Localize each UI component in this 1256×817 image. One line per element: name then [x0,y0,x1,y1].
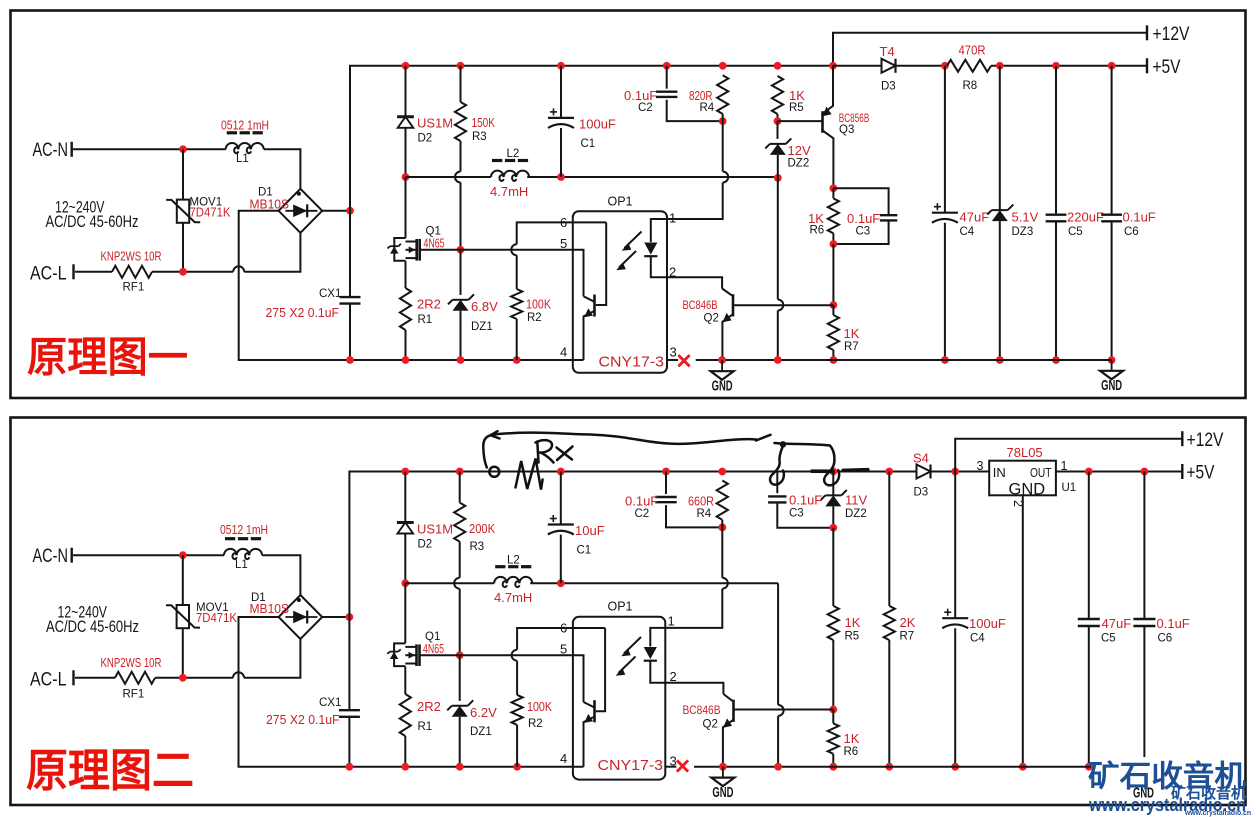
capacitor C3 0.1uF [833,188,888,214]
resistor R3 [460,66,462,102]
wire bottom rail left [350,359,584,361]
junction bottom R2 [513,356,521,364]
junction Q2 emitter/GND (2) [719,763,727,771]
wire pin6 to R2 top [517,222,607,244]
transistor Q1 4N65 (2) [405,646,416,648]
svg-text:1: 1 [668,614,675,629]
svg-text:R1: R1 [418,721,433,733]
capacitor C3 0.1uF (2) [776,472,778,494]
wire Q1 source to node [420,249,461,251]
capacitor C5 47uF (2) [1088,472,1090,620]
svg-text:0.1uF: 0.1uF [1123,210,1156,225]
optocoupler OP1 body (2) [573,617,665,780]
svg-text:78L05: 78L05 [1007,445,1043,460]
svg-text:AC-L: AC-L [30,263,67,285]
svg-text:GND: GND [712,785,733,801]
svg-text:D2: D2 [418,133,433,145]
svg-text:RF1: RF1 [123,689,145,701]
capacitor C6 0.1uF (2) [1143,472,1145,620]
terminal +12V (2) [1181,431,1183,446]
junction top rail C2 (2) [662,468,670,476]
svg-text:R6: R6 [844,746,859,758]
no-connect X mark [678,355,689,366]
transistor Q1 4N65 [406,241,417,243]
wire R4 to OP1 pin1 [722,121,724,171]
junction top rail R3 [457,62,465,70]
svg-text:7D471K: 7D471K [196,610,237,625]
svg-text:C6: C6 [1158,633,1173,645]
svg-text:R2: R2 [527,312,542,324]
svg-text:CX1: CX1 [319,697,341,709]
svg-text:4N65: 4N65 [424,236,445,251]
junction top rail Q3/T4 [829,62,837,70]
svg-text:R8: R8 [963,80,978,92]
svg-text:R4: R4 [697,508,712,520]
svg-text:OUT: OUT [1030,465,1052,480]
svg-text:www.crystalradio.cn: www.crystalradio.cn [1184,810,1251,817]
inductor L2 [491,171,529,181]
wire U1 GND pin (2) [1022,495,1024,766]
svg-text:0.1uF: 0.1uF [847,211,880,226]
svg-text:6.8V: 6.8V [471,299,498,314]
wire S4 to IN (2) [931,471,990,473]
zener DZ3 5.1V [999,66,1001,210]
wire bridge- down [239,211,350,360]
wire bridge- down (2) [239,617,350,767]
junction source node [457,246,465,254]
svg-text:BC856B: BC856B [839,111,870,125]
svg-text:L2: L2 [507,148,520,160]
svg-text:C6: C6 [1124,226,1139,238]
junction DZ3 bottom [996,356,1004,364]
resistor R1 2R2 [405,261,407,288]
svg-text:4: 4 [560,345,567,360]
capacitor CX1 [340,296,361,298]
capacitor C2 0.1uF [666,66,668,89]
svg-text:1K: 1K [844,326,860,341]
svg-text:100uF: 100uF [579,117,616,132]
wire AC-L to RF1 [75,271,112,273]
junction top rail C1 [557,62,565,70]
svg-text:KNP2WS 10R: KNP2WS 10R [101,655,162,670]
transistor Q3 BC856B [778,120,823,122]
junction Q2 emitter/GND [718,356,726,364]
svg-text:1K: 1K [789,88,805,103]
svg-text:CX1: CX1 [319,288,341,300]
svg-text:C2: C2 [635,508,650,520]
OP1 light arrows [619,232,642,268]
svg-text:2K: 2K [900,615,916,630]
svg-text:1K: 1K [844,731,860,746]
OP1 phototransistor [593,295,596,317]
svg-text:AC-N: AC-N [33,139,69,161]
wire bottom rail right [696,359,1112,361]
svg-text:C4: C4 [960,226,975,238]
svg-text:220uF: 220uF [1067,210,1104,225]
svg-text:2R2: 2R2 [417,699,441,714]
junction C4 bottom (2) [951,763,959,771]
resistor R2 100K [511,244,517,255]
svg-text:2R2: 2R2 [417,297,441,312]
wire L1 to bridge top (2) [262,555,300,595]
svg-text:C3: C3 [789,508,804,520]
junction bottom R1 (2) [401,763,409,771]
optocoupler OP1 body [573,211,667,373]
wire OUT to +5V (2) [1056,471,1182,473]
svg-text:6: 6 [560,215,567,230]
svg-text:820R: 820R [689,88,713,103]
svg-text:L2: L2 [507,555,520,567]
junction R6/C3 bottom [830,240,838,248]
wire R4 to OP1 pin1 (2) [721,527,723,577]
OP1 internal LED (2) [650,628,665,647]
wire Q1 source to node (2) [420,654,460,656]
svg-text:DZ1: DZ1 [471,321,493,333]
junction bottom CX1 [346,356,354,364]
svg-text:100K: 100K [526,297,551,312]
svg-text:6: 6 [560,621,567,636]
svg-text:C5: C5 [1068,226,1083,238]
svg-text:AC/DC 45-60Hz: AC/DC 45-60Hz [46,212,139,231]
OP1 light arrows (2) [619,637,642,673]
svg-text:KNP2WS 10R: KNP2WS 10R [101,249,162,264]
junction C4 bottom [941,356,949,364]
capacitor CX1 (2) [339,709,360,711]
svg-text:C4: C4 [970,633,985,645]
wire R6 to Q2 base node [832,244,834,305]
wire pin5 line [461,250,584,296]
svg-text:12V: 12V [788,143,811,158]
svg-text:275 X2 0.1uF: 275 X2 0.1uF [266,712,340,727]
wire left vertical loop (2) [348,717,350,767]
svg-text:原理图二: 原理图二 [26,745,194,796]
svg-text:+12V: +12V [1153,23,1190,45]
diode D2 US1M (2) [404,472,406,523]
svg-text:100K: 100K [527,699,552,714]
svg-text:200K: 200K [469,521,495,536]
svg-text:+12V: +12V [1187,429,1224,451]
resistor R4 820R [717,75,728,114]
resistor R5 1K [772,76,783,114]
svg-text:7D471K: 7D471K [190,205,231,220]
capacitor C5 220uF [1055,66,1057,215]
svg-text:U1: U1 [1062,482,1077,494]
wire AC-L to RF1 (2) [75,677,115,679]
capacitor C2 0.1uF (2) [665,472,667,495]
diode S4/D3 (2) [917,465,931,479]
diode T4/D3 [882,59,896,73]
regulator U1 78L05 [989,461,1056,496]
wire bridge+ to main [322,210,350,212]
resistor R1 2R2 (2) [404,666,406,694]
junction AC-L/MOV1 (2) [179,674,187,682]
junction Q3 collector/R6 [830,184,838,192]
svg-text:AC-N: AC-N [33,545,69,567]
wire DZ2 to ground rail [777,178,779,300]
svg-text:L1: L1 [236,153,249,165]
wire R3 hop over mid rail (2) [454,578,459,589]
junction R4 bottom (2) [718,524,726,532]
wire source node to DZ1 [460,250,462,295]
junction R6 bottom (2) [829,763,837,771]
junction bridge+ node (2) [346,613,354,621]
junction bridge+ node [346,207,354,215]
svg-text:D3: D3 [914,487,929,499]
transistor Q2 BC846B [667,277,722,288]
svg-text:US1M: US1M [417,116,453,131]
ground GND (primary) [721,360,723,371]
svg-text:3: 3 [670,345,677,360]
svg-text:US1M: US1M [417,522,453,537]
svg-text:R7: R7 [844,341,859,353]
zener DZ1 6.2V (2) [452,706,468,717]
resistor R6 1K (2) [832,710,834,724]
wire mid rail right [527,176,774,178]
wire +12V riser [833,33,1147,66]
wire left vertical (+12V loop) [349,304,351,360]
wire R3 hop over mid rail [455,172,461,183]
wire AC-N to L1 (2) [73,554,224,556]
svg-text:C1: C1 [577,545,592,557]
panel 2 border frame [11,418,1246,806]
junction DZ2 bottom (2) [829,524,837,532]
svg-text:GND: GND [1101,378,1122,394]
inductor L1 (2) [224,549,262,559]
svg-text:R7: R7 [900,631,915,643]
svg-text:S4: S4 [913,451,929,466]
no-connect X mark (2) [677,760,688,771]
ground GND (right) [1111,360,1113,371]
svg-text:C1: C1 [581,138,596,150]
panel 1 border frame [11,11,1246,399]
wire D3 to R8 [896,65,948,67]
svg-text:150K: 150K [472,115,496,130]
junction C5 bottom [1052,356,1060,364]
svg-text:MB10S: MB10S [250,197,290,212]
wire L1 to bridge top [264,149,301,189]
svg-text:4.7mH: 4.7mH [490,184,528,199]
junction bottom DZ1 [457,356,465,364]
svg-text:11V: 11V [845,493,867,508]
junction top rail R7 (2) [885,468,893,476]
junction top rail D2 (2) [401,468,409,476]
svg-text:4.7mH: 4.7mH [494,590,532,605]
svg-text:R3: R3 [470,541,485,553]
wire pin5 line (2) [460,655,584,702]
svg-text:Q3: Q3 [839,124,854,136]
resistor R3 200K (2) [459,472,461,503]
bridge rectifier D1 [279,189,323,233]
svg-text:R4: R4 [700,102,715,114]
terminal +5V (2) [1181,464,1183,479]
junction C5 top (2) [1085,468,1093,476]
junction C5 top [1052,62,1060,70]
svg-text:0.1uF: 0.1uF [1157,616,1190,631]
junction top rail R4 [719,62,727,70]
svg-text:100uF: 100uF [969,616,1006,631]
svg-text:IN: IN [993,465,1006,480]
svg-text:6.2V: 6.2V [470,705,497,720]
svg-text:Q2: Q2 [704,313,719,325]
svg-text:275 X2 0.1uF: 275 X2 0.1uF [266,305,340,320]
pin 3 stub [667,359,678,361]
svg-text:D2: D2 [418,539,433,551]
svg-text:0512 1mH: 0512 1mH [220,522,268,537]
resistor R6 1K [832,188,834,198]
transistor Q2 BC846B (2) [665,683,723,694]
wire +12V riser (2) [955,439,1182,472]
resistor R8 470R [947,60,991,72]
svg-text:1K: 1K [845,615,861,630]
junction C4 top [941,62,949,70]
resistor RF1 [112,266,152,278]
svg-text:0.1uF: 0.1uF [624,88,657,103]
pin 3 stub (2) [665,766,676,768]
zener DZ2 12V [777,121,779,139]
varistor MOV1 [182,149,184,199]
svg-text:47uF: 47uF [960,210,990,225]
inductor L2 (2) [494,577,532,587]
junction top rail R3 (2) [456,468,464,476]
svg-text:C5: C5 [1101,633,1116,645]
wire mid rail down to gnd (2) [777,583,779,705]
svg-text:4N65: 4N65 [423,641,444,656]
svg-text:L1: L1 [235,559,248,571]
junction R4 bottom [719,117,727,125]
wire mid rail right (2) [530,582,778,584]
capacitor C4 47uF [944,66,946,213]
terminal +12V [1146,25,1148,40]
svg-text:Q2: Q2 [703,719,718,731]
zener DZ2 11V (2) [832,472,834,495]
junction C6 top [1108,62,1116,70]
junction U1 gnd bottom [1019,763,1027,771]
inductor L1 [226,143,264,153]
svg-text:5.1V: 5.1V [1012,210,1039,225]
svg-text:GND: GND [712,379,733,395]
junction gnd line bottom (2) [774,763,782,771]
resistor R5 1K (2) [832,528,834,606]
OP1 internal LED [651,219,667,242]
wire R8 to +5V term [991,65,1147,67]
junction top rail R4 (2) [718,468,726,476]
junction Q2 base node [830,301,838,309]
svg-text:R5: R5 [845,631,860,643]
capacitor C1 100uF [560,66,562,118]
junction D2/mid rail [402,173,410,181]
watermark logo text [1088,760,1251,817]
capacitor C4 100uF (2) [954,472,956,619]
wire D2 to Q1 drain [405,177,407,238]
junction top rail R5 [774,62,782,70]
svg-text:AC-L: AC-L [30,669,67,691]
svg-text:OP1: OP1 [608,600,633,614]
svg-text:10uF: 10uF [575,523,605,538]
junction top rail DZ2 (2) [829,468,837,476]
svg-text:470R: 470R [959,43,986,58]
junction AC-N/MOV1 [179,145,187,153]
svg-text:D3: D3 [881,81,896,93]
svg-text:0.1uF: 0.1uF [625,494,658,509]
capacitor C1 10uF (2) [560,472,562,525]
bridge rectifier D1 (2) [279,595,323,639]
junction bottom R2 (2) [513,763,521,771]
junction Q2 base node (2) [829,706,837,714]
wire RF1 to bridge bottom (2) [155,677,233,679]
wire mid rail left (2) [405,582,494,584]
svg-text:R1: R1 [418,314,433,326]
resistor R7 1K [832,305,834,315]
junction AC-L/MOV1 [179,268,187,276]
junction source node (2) [456,651,464,659]
svg-text:BC846B: BC846B [683,703,721,717]
junction bottom R1 [402,356,410,364]
svg-text:T4: T4 [880,44,895,59]
junction mid rail C1 [557,173,565,181]
svg-text:1: 1 [669,211,676,226]
wire RF1 to bridge bottom [152,271,233,273]
wire mid rail left [406,176,492,178]
svg-text:BC846B: BC846B [683,298,718,312]
ground GND (primary 2) [722,767,724,778]
wire bottom rail left (2) [349,766,583,768]
junction mid rail end [774,174,782,182]
svg-text:0512 1mH: 0512 1mH [221,118,269,133]
terminal +5V [1146,58,1148,73]
svg-text:DZ1: DZ1 [470,726,492,738]
svg-text:DZ2: DZ2 [845,508,867,520]
junction mid rail C1 (2) [557,579,565,587]
junction C5 bottom (2) [1085,763,1093,771]
junction top rail D2 [402,62,410,70]
junction AC-N/MOV1 (2) [179,551,187,559]
svg-text:GND: GND [1009,481,1046,499]
svg-text:RF1: RF1 [123,282,145,294]
wire source to DZ1 (2) [459,655,461,701]
junction top rail C1 (2) [557,468,565,476]
junction regulator input node [951,468,959,476]
resistor R2 100K (2) [512,650,517,661]
svg-text:C2: C2 [638,102,653,114]
junction R7 bottom [830,356,838,364]
svg-text:DZ3: DZ3 [1012,226,1034,238]
svg-text:CNY17-3: CNY17-3 [598,758,664,774]
junction DZ2 line bottom [774,356,782,364]
svg-text:CNY17-3: CNY17-3 [599,355,665,371]
svg-text:R6: R6 [810,225,825,237]
wire bridge+ to main (2) [322,616,349,618]
svg-text:C3: C3 [856,226,871,238]
zener DZ1 6.8V [453,300,469,311]
varistor MOV1 (2) [182,555,184,605]
svg-text:MB10S: MB10S [250,601,290,616]
svg-text:R2: R2 [528,718,543,730]
svg-text:+5V: +5V [1153,56,1181,78]
resistor RF1 (2) [115,672,155,684]
svg-text:+5V: +5V [1187,462,1215,484]
junction C6 top (2) [1141,468,1149,476]
diode D2 US1M [405,66,407,117]
junction top rail C2 [663,62,671,70]
junction R7 bottom (2) [885,763,893,771]
svg-text:R3: R3 [472,131,487,143]
svg-text:OP1: OP1 [608,195,633,209]
hand-drawn Rx annotation [483,431,868,489]
svg-text:0.1uF: 0.1uF [789,493,822,508]
wire D2 to Q1 drain (2) [404,583,406,643]
junction C6 bottom / rail end [1108,356,1116,364]
svg-text:3: 3 [977,459,984,473]
